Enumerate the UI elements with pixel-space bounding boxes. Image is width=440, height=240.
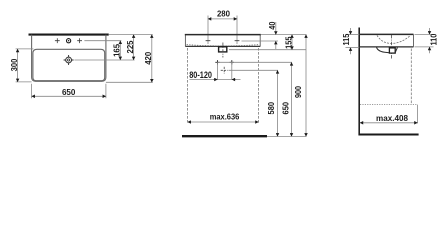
svg-text:115: 115 <box>341 33 351 45</box>
svg-text:580: 580 <box>266 102 276 115</box>
svg-text:80-120: 80-120 <box>189 70 212 81</box>
svg-text:max.636: max.636 <box>210 112 240 122</box>
svg-text:650: 650 <box>281 102 291 115</box>
svg-text:300: 300 <box>9 58 19 71</box>
svg-text:max.408: max.408 <box>376 113 408 123</box>
svg-text:650: 650 <box>62 87 76 97</box>
svg-text:420: 420 <box>143 52 153 65</box>
svg-text:165: 165 <box>112 44 122 57</box>
svg-text:225: 225 <box>125 40 135 53</box>
svg-text:900: 900 <box>293 86 303 98</box>
svg-text:40: 40 <box>267 21 277 29</box>
svg-text:280: 280 <box>217 9 230 19</box>
svg-text:155: 155 <box>283 36 293 49</box>
svg-text:110: 110 <box>429 33 439 45</box>
